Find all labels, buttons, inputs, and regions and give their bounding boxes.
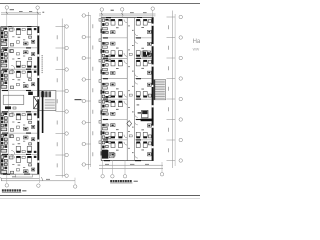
left plan annex stair block bbox=[39, 91, 56, 111]
right plan bottom grid bubble 3 bbox=[123, 175, 127, 179]
svg-text:Ha: Ha bbox=[193, 39, 200, 45]
left plan room module 3 bbox=[1, 70, 4, 73]
left plan heavy right wall bbox=[37, 27, 39, 175]
right plan bottom grid bubble 1 bbox=[101, 175, 105, 179]
ladder M annotation bbox=[75, 99, 82, 100]
ladder L grid bubble 8 bbox=[65, 174, 69, 178]
left plan partition line bbox=[8, 27, 10, 175]
ladder L grid bubble 3 bbox=[65, 68, 69, 72]
ladder R grid bubble 4 bbox=[179, 77, 183, 81]
left plan bottom grid bubble 3 bbox=[73, 185, 77, 189]
right plan room module 4 bbox=[102, 95, 105, 98]
ladder R grid bubble 7 bbox=[179, 138, 183, 142]
right plan title text bbox=[110, 180, 112, 182]
right plan room module 7 bbox=[102, 141, 105, 144]
right plan interior walls bbox=[101, 37, 127, 39]
bottom border rule bbox=[0, 195, 200, 197]
right plan top grid bubble 2 bbox=[120, 8, 124, 12]
ladder R grid bubble 6 bbox=[179, 118, 183, 122]
left plan room module 6 bbox=[1, 134, 4, 137]
left plan interior walls bbox=[1, 47, 38, 49]
ladder M grid bubble 2 bbox=[82, 35, 86, 39]
left plan top grid bubble 1 bbox=[5, 6, 9, 10]
ladder R dimension lines bbox=[172, 11, 174, 169]
left plan entrance steps bbox=[15, 174, 32, 177]
ladder M grid bubble 4 bbox=[82, 78, 86, 82]
right plan corridor diamond bbox=[127, 121, 132, 127]
ladder M grid bubble 7 bbox=[82, 142, 86, 146]
right plan protruding stair block bbox=[154, 80, 166, 100]
ladder M grid bubble 8 bbox=[82, 163, 86, 167]
right plan entrance cluster bbox=[102, 150, 108, 159]
right plan room module 6 bbox=[102, 136, 105, 139]
right plan balcony stubs bbox=[99, 19, 101, 22]
right plan bottom grid bubble 4 bbox=[160, 173, 164, 177]
ladder M grid bubble 6 bbox=[82, 121, 86, 125]
right plan heavy right wall bbox=[152, 18, 154, 161]
right plan room module 1 bbox=[102, 19, 105, 22]
ladder R grid bubble 1 bbox=[179, 15, 183, 19]
ladder R grid bubble 5 bbox=[179, 97, 183, 101]
ladder L grid bubble 6 bbox=[65, 132, 69, 136]
left plan lobby and stair zone bbox=[3, 95, 24, 104]
left plan top grid bubble 2 bbox=[36, 6, 40, 10]
ladder M grid bubble 1 bbox=[82, 14, 86, 18]
left plan room module 7 bbox=[1, 156, 4, 159]
left plan vertical label bbox=[42, 55, 43, 56]
svg-text:ww: ww bbox=[193, 46, 200, 51]
left plan outline bbox=[1, 26, 40, 28]
left plan annex heavy wall bbox=[42, 91, 44, 133]
left plan title text bbox=[2, 189, 4, 191]
ladder L dimension lines bbox=[61, 19, 63, 178]
ladder M grid bubble 3 bbox=[82, 56, 86, 60]
left plan bottom grid bubble 2 bbox=[37, 184, 41, 188]
right plan left wall segments bbox=[101, 29, 102, 33]
right plan corridor wall left bbox=[126, 18, 128, 161]
ladder L grid bubble 7 bbox=[65, 153, 69, 157]
ladder L grid bubble 2 bbox=[65, 46, 69, 50]
ladder L grid bubble 5 bbox=[65, 110, 69, 114]
right plan corridor wall right bbox=[134, 18, 136, 161]
right plan kitchen cluster bbox=[142, 51, 151, 57]
ladder L grid bubble 1 bbox=[65, 25, 69, 29]
ladder R grid bubble 2 bbox=[179, 36, 183, 40]
right plan room module 5 bbox=[102, 101, 105, 104]
right plan top grid bubble 3 bbox=[151, 7, 155, 11]
right plan top dimension lines bbox=[99, 13, 156, 15]
right plan room module 2 bbox=[102, 54, 105, 57]
left plan bottom dimension lines bbox=[1, 177, 39, 179]
ladder M grid bubble 5 bbox=[82, 99, 86, 103]
left plan room module 5 bbox=[1, 113, 4, 116]
right plan module5 service cluster bbox=[142, 110, 148, 117]
right plan top grid bubble 1 bbox=[100, 8, 104, 12]
bottom faint rule bbox=[0, 198, 200, 200]
ladder R grid bubble 3 bbox=[179, 56, 183, 60]
right plan room module 3 bbox=[102, 60, 105, 63]
ladder M dimension lines bbox=[87, 12, 89, 170]
right plan bottom grid bubble 2 bbox=[111, 175, 115, 179]
left plan room module 1 bbox=[1, 28, 4, 31]
left plan top dimension lines bbox=[1, 12, 41, 14]
top border rule bbox=[0, 3, 200, 5]
right plan outline bbox=[101, 17, 153, 19]
left plan room module 2 bbox=[1, 49, 4, 52]
left plan bottom grid bubble 1 bbox=[5, 184, 9, 188]
ladder R grid bubble 8 bbox=[179, 159, 183, 163]
right plan bottom dimension lines bbox=[99, 164, 163, 166]
ladder L grid bubble 4 bbox=[65, 89, 69, 93]
